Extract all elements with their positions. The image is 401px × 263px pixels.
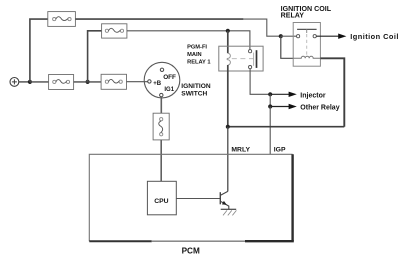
wire PGM-FI relay coil bottom down to MRLY node bbox=[227, 65, 229, 127]
node E (injector junction) bbox=[268, 92, 272, 96]
wire node B to relay contact bbox=[281, 35, 297, 37]
svg-text:CPU: CPU bbox=[154, 198, 168, 205]
node A (junction dot at battery row x=30) bbox=[28, 80, 32, 84]
fuse F1 (top left, horizontal) bbox=[48, 12, 76, 27]
wire IG1 terminal down to fuse F5 bbox=[160, 97, 162, 113]
relay K2 movable bar bbox=[297, 28, 317, 30]
node C (junction dot at battery row x=87.6) bbox=[86, 80, 90, 84]
arrow to Injector bbox=[270, 92, 297, 97]
wire fuse F5 down into PCM to CPU bbox=[160, 140, 162, 181]
fuse F5 (vertical, below ignition switch) bbox=[153, 113, 169, 140]
wire PGM-FI relay output contact down to injector node bbox=[250, 69, 270, 95]
svg-text:Injector: Injector bbox=[300, 93, 326, 100]
svg-text:+B: +B bbox=[153, 81, 162, 87]
relay K1 contact pins bbox=[249, 50, 252, 53]
svg-text:RELAY 1: RELAY 1 bbox=[187, 60, 210, 66]
wire node D down into PGM-FI relay coil bbox=[227, 31, 229, 53]
svg-text:RELAY: RELAY bbox=[281, 12, 305, 20]
wire MRLY down to transistor collector bbox=[227, 127, 229, 192]
transistor Q1 (NPN, relay driver) bbox=[220, 191, 229, 209]
node B (junction at ignition coil relay feed) bbox=[279, 34, 283, 38]
fuse F4 (battery row, horizontal, feeds +B) bbox=[101, 74, 126, 89]
fuse F2 (second horizontal fuse, top) bbox=[102, 24, 127, 38]
arrow to Ignition Coil bbox=[338, 34, 346, 39]
relay K2 contact pins bbox=[297, 35, 300, 38]
PCM box bbox=[89, 154, 293, 241]
node D (junction dot on F2 wire above PGM-FI relay coil) bbox=[226, 29, 230, 33]
label PGM-FI MAIN RELAY 1 bbox=[187, 44, 210, 65]
relay K2 coil (ignition coil relay) bbox=[293, 56, 320, 58]
svg-text:MAIN: MAIN bbox=[187, 52, 202, 58]
battery B+ bbox=[10, 78, 19, 87]
relay K1 movable blade bbox=[253, 53, 255, 66]
svg-text:OFF: OFF bbox=[163, 74, 176, 81]
svg-text:IG1: IG1 bbox=[164, 87, 174, 93]
wire relay K2 contact to Ignition Coil arrow bbox=[316, 35, 339, 37]
ground bbox=[221, 209, 237, 215]
label IGNITION COIL RELAY bbox=[281, 5, 332, 20]
PGM-FI main relay 1 box bbox=[219, 46, 263, 71]
ignition coil relay box bbox=[293, 23, 320, 67]
arrow to Other Relay bbox=[270, 104, 297, 109]
pin IG1 terminal bbox=[160, 93, 163, 96]
label IGNITION SWITCH bbox=[181, 83, 211, 98]
wire fuse F2 to PGM-FI relay (coil feed + contact feed) bbox=[127, 31, 250, 50]
wire junction C up to fuse F2 row bbox=[88, 31, 102, 82]
wire node B down to ignition coil relay coil bbox=[281, 36, 293, 58]
node F (other relay junction) bbox=[268, 104, 272, 108]
relay K1 dashed link bbox=[232, 58, 254, 60]
CPU box bbox=[147, 181, 176, 215]
svg-text:IGNITION: IGNITION bbox=[181, 83, 211, 90]
wire relay K2 coil right to riser bbox=[320, 58, 344, 126]
svg-text:SWITCH: SWITCH bbox=[181, 90, 207, 97]
wire continuation to down-corner x=266.8 bbox=[243, 19, 280, 36]
wire node E down to other-relay node bbox=[269, 94, 271, 106]
relay K1 fixed bar bbox=[256, 50, 258, 68]
pin OFF terminal bbox=[160, 68, 163, 71]
wire CPU to transistor base bbox=[176, 198, 220, 200]
pin +B terminal bbox=[148, 80, 151, 83]
svg-text:PGM-FI: PGM-FI bbox=[187, 44, 207, 50]
fuse F3 (battery row, horizontal) bbox=[49, 75, 74, 90]
ignition switch S1 bbox=[144, 62, 180, 98]
wire IGP: node F down into PCM bbox=[269, 107, 271, 155]
wire fuse F1 to corner, over to ignition coil relay branch bbox=[75, 18, 243, 20]
relay K2 dashed link bbox=[306, 29, 308, 33]
node G (MRLY junction) bbox=[226, 125, 230, 129]
svg-text:Other Relay: Other Relay bbox=[300, 104, 339, 111]
wire fuse F3 to junction C and fuse F4 bbox=[74, 81, 102, 83]
wire battery row: junction A to fuse F3 bbox=[30, 81, 49, 83]
wire junction A up to fuse F1 row bbox=[30, 19, 48, 82]
svg-text:IGP: IGP bbox=[274, 147, 286, 154]
svg-text:PCM: PCM bbox=[182, 246, 200, 255]
svg-text:Ignition Coil: Ignition Coil bbox=[350, 32, 399, 41]
wire MRLY horizontal bus bbox=[228, 126, 344, 128]
svg-text:MRLY: MRLY bbox=[231, 147, 250, 154]
wire battery to junction A bbox=[19, 81, 30, 83]
relay K1 coil (PGM-FI) bbox=[227, 53, 230, 65]
wire fuse F4 to ignition switch +B terminal bbox=[127, 81, 148, 83]
